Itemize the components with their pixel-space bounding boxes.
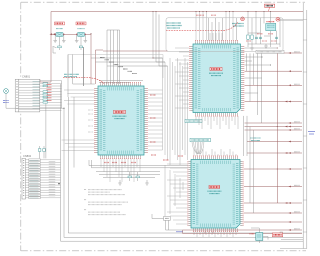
wire VDD vertical right: [276, 53, 278, 203]
node junction dots: [152, 57, 153, 58]
wire off-page net6: [245, 126, 303, 128]
wire off-page net1: [284, 52, 302, 54]
wire bottom return B: [64, 236, 303, 238]
note text block above IC801: [64, 74, 79, 76]
label IC802 top pins red: [196, 14, 216, 16]
wire off-page net10: [244, 168, 302, 170]
node red labels below IC801: [104, 162, 136, 164]
wire IC803 left links: [167, 164, 188, 224]
node labels mid bus: [150, 95, 183, 160]
enclosure audio block: [166, 18, 283, 52]
ground IC801 bottom2: [145, 180, 149, 185]
wire IC803 bottom drops: [194, 231, 236, 237]
wire bus left vertical C: [67, 97, 69, 233]
node marker 2: [241, 17, 245, 21]
capacitor C806: [43, 146, 45, 158]
wire off-page net8: [247, 141, 302, 143]
red micro labels subcircuit: [246, 34, 277, 41]
wire dark riser: [83, 47, 85, 86]
wire IC801 right links: [148, 90, 163, 150]
label servo block: [190, 138, 211, 141]
wire bottom maroon bus: [183, 230, 303, 233]
label net bottom blue: [176, 231, 183, 233]
enclosure tuner block: [68, 55, 163, 79]
connector CN803: [164, 216, 171, 220]
ground IC801 bottom: [118, 180, 122, 185]
wire subcircuit mesh: [248, 12, 280, 48]
capacitor C833: [275, 37, 278, 38]
wire gray риsers left: [68, 55, 95, 98]
node dots top bus: [153, 11, 272, 12]
label strip below IC802: [185, 119, 202, 122]
notes text: [84, 190, 128, 215]
inductor L801: [53, 46, 57, 53]
wire bottom return A: [68, 232, 302, 234]
wire IC803 top feeds: [194, 149, 236, 156]
capacitor C801: [58, 46, 62, 50]
wire IC801 bottom loop B: [92, 160, 189, 168]
highlight path sheet marker: [166, 22, 238, 31]
wire off-page net15: [183, 229, 303, 231]
wire bus left vertical A: [60, 84, 62, 241]
note text right gap: [251, 138, 261, 141]
wire top supply bus: [51, 11, 303, 13]
wire mid bus verticals: [163, 58, 188, 218]
wire IC803 bottom to bus: [205, 231, 213, 233]
ground: [84, 34, 88, 42]
wire CN801 drop: [45, 104, 47, 159]
capacitor C832: [259, 37, 262, 38]
wire IC802 right shorts: [245, 48, 278, 93]
wire bus left vertical B: [63, 108, 65, 237]
wire jack to bus: [6, 93, 64, 108]
capacitor C802: [79, 46, 83, 50]
connector CN801: [15, 75, 40, 112]
wire right gap verticals: [244, 116, 254, 213]
wire bottom return C: [61, 240, 304, 242]
wire CN803 drops: [152, 214, 183, 230]
capacitor C831: [255, 37, 258, 38]
wire IC802 left links: [175, 48, 189, 108]
wire IC801 top rail: [99, 81, 143, 83]
svg-text:CN802: CN802: [23, 154, 32, 158]
wire off-page net7: [245, 129, 303, 131]
crystal X802: [76, 22, 86, 46]
ground subcircuit A: [250, 47, 254, 50]
wire left supply branch: [40, 12, 51, 83]
crystal X801: [55, 22, 65, 46]
wire off-page net4: [245, 101, 303, 103]
node marker 1: [276, 17, 280, 21]
wire crystal feed: [51, 33, 91, 35]
wire off-page net13: [244, 212, 302, 214]
wire IC801 left links: [62, 90, 95, 151]
wire supply mid: [103, 50, 168, 52]
wire bus left vertical E: [61, 81, 63, 108]
wire funnel bundle: [192, 142, 204, 154]
wire off-page net2: [245, 70, 303, 72]
wire off-page net5: [245, 122, 303, 124]
wire CN802 harness: [26, 160, 61, 198]
wire IC802 bottom drops: [196, 116, 238, 129]
label strip bottom of block: [256, 50, 284, 53]
wire off-page net9: [247, 152, 302, 154]
resistor R831: [247, 35, 250, 39]
wire CN801 harness: [40, 81, 62, 111]
node CN802 junction: [58, 183, 59, 184]
label sheet ref blue right: [308, 132, 315, 135]
label IC801 left pin nets: [88, 110, 93, 132]
ground: [75, 34, 79, 42]
ground: [62, 34, 66, 42]
note text block above IC802 right: [232, 24, 244, 27]
microcontroller IC801: [95, 83, 147, 159]
IC805 title box: [265, 4, 275, 11]
wire IC801 bottom loop A: [89, 160, 188, 166]
wire IC801 bottom bus: [96, 172, 160, 178]
wire crystal drop B: [96, 50, 104, 84]
wire IC801 bottom drops: [101, 158, 140, 182]
IC804 regulator: [266, 23, 276, 30]
wire crystal drop A: [90, 34, 92, 84]
wire clock cross links: [91, 58, 168, 66]
red label IC804: [267, 21, 275, 23]
capacitor C805: [39, 146, 41, 158]
wire IC802 top feeds2: [210, 33, 222, 41]
resistor R801 array: [43, 83, 48, 104]
wire subcircuit drops: [247, 53, 262, 123]
wire IC802 top feeds3: [209, 18, 237, 41]
resistor R832: [251, 35, 254, 39]
servo controller IC803: [188, 156, 243, 231]
wire top bus drop left of IC802: [153, 12, 168, 67]
wire off-page net14: [244, 221, 302, 223]
ground: [53, 34, 57, 42]
svg-text:CN801: CN801: [22, 75, 31, 79]
note text block left of IC802 top: [166, 23, 182, 28]
IC806 ref box: [272, 233, 282, 237]
node dots IC802 right: [277, 47, 278, 48]
wire clock risers: [107, 30, 120, 84]
capacitor C810: [128, 172, 131, 181]
wire off-page net3: [245, 84, 303, 86]
wire off-page net12: [244, 202, 302, 204]
label Q801 red: [250, 233, 255, 235]
highlight path left: [63, 78, 104, 84]
wire off-page net11: [244, 186, 302, 188]
wire bus left vertical D: [73, 97, 75, 168]
signal processor IC802: [190, 41, 244, 116]
wire IC802 top feeds: [196, 12, 233, 41]
connector CN802: [22, 154, 32, 199]
label staircase nets: [100, 58, 137, 74]
jack J801 microphone: [3, 89, 9, 103]
capacitor C811: [136, 172, 139, 181]
ground subcircuit B: [264, 44, 268, 48]
wire Q801 links: [251, 228, 268, 243]
transistor Q801: [256, 233, 263, 241]
